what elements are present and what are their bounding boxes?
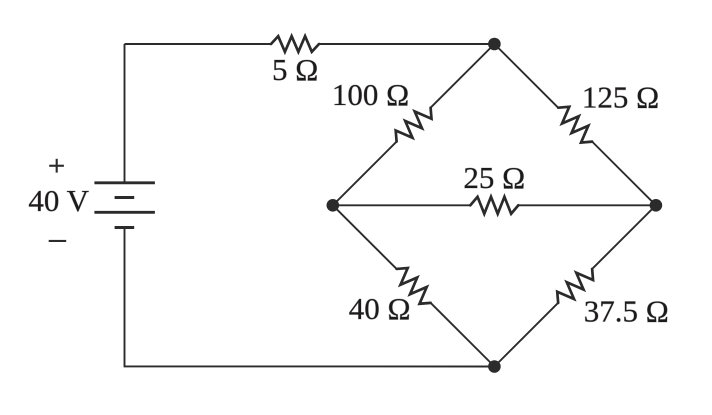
svg-text:25 Ω: 25 Ω [463, 160, 525, 195]
svg-text:5 Ω: 5 Ω [272, 52, 318, 87]
svg-text:100 Ω: 100 Ω [332, 77, 409, 112]
svg-text:40 Ω: 40 Ω [349, 291, 411, 326]
svg-text:125 Ω: 125 Ω [582, 79, 659, 114]
svg-text:37.5 Ω: 37.5 Ω [584, 293, 669, 328]
svg-text:40 V: 40 V [28, 183, 89, 218]
